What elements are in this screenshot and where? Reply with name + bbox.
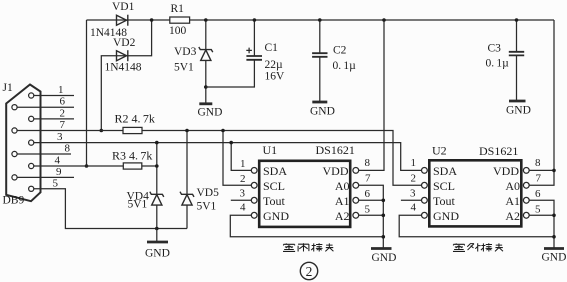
svg-text:0. 1µ: 0. 1µ xyxy=(333,60,357,72)
node: VD2 anode joins pin7 row xyxy=(100,129,104,133)
J1 pin 9 xyxy=(12,175,17,180)
svg-text:A0: A0 xyxy=(505,179,520,193)
svg-text:SDA: SDA xyxy=(263,164,287,178)
capacitor C3 xyxy=(516,20,518,101)
svg-text:GND: GND xyxy=(263,209,289,223)
svg-text:5: 5 xyxy=(365,204,371,216)
J1 pin 7 xyxy=(12,128,17,133)
U1 pin 6 A1 xyxy=(353,197,359,203)
capacitor C2 xyxy=(319,20,321,102)
diode VD1 xyxy=(117,15,127,25)
svg-text:VD1: VD1 xyxy=(112,1,135,13)
svg-text:4: 4 xyxy=(55,155,61,167)
svg-text:4: 4 xyxy=(411,202,417,214)
svg-text:SCL: SCL xyxy=(433,179,455,193)
label: outdoor probe 室外探头 xyxy=(453,243,503,251)
svg-text:C3: C3 xyxy=(488,43,502,55)
J1 pin 2 xyxy=(29,116,34,121)
wire: U1 VDD riser to rail xyxy=(359,20,384,170)
svg-text:GND: GND xyxy=(506,105,531,117)
svg-text:5: 5 xyxy=(535,204,541,216)
U2 pin 5 A2 xyxy=(523,212,529,218)
U2 pin 6 A1 xyxy=(523,197,529,203)
U1 pin 8 VDD xyxy=(353,168,359,174)
U1 pin 1 SDA xyxy=(251,168,257,174)
wire: bus B from J1 pin3 to U2 SDA xyxy=(34,143,422,171)
wire: U1 GND pin route xyxy=(230,215,383,237)
svg-text:7: 7 xyxy=(536,173,542,185)
svg-text:C2: C2 xyxy=(333,45,347,57)
ground under U1 xyxy=(371,247,392,250)
svg-text:GND: GND xyxy=(433,209,459,223)
svg-text:16V: 16V xyxy=(265,71,286,83)
wire: U2 A1/A2 ground tie xyxy=(529,200,554,248)
svg-text:A1: A1 xyxy=(505,194,520,208)
svg-text:GND: GND xyxy=(145,248,170,260)
U1 pin 4 GND xyxy=(251,212,257,218)
wire: VD2 branch (anode riser from pin7 row, diode row, cathode riser to rail) xyxy=(101,20,151,131)
zener VD4 xyxy=(150,192,164,197)
J1 pin 8 xyxy=(12,151,17,156)
node: U1 GND route joins ground tie xyxy=(382,235,386,239)
svg-text:6: 6 xyxy=(60,96,66,108)
svg-text:5V1: 5V1 xyxy=(174,62,194,74)
wire: U2 VDD/A0 tie to rail (right edge drop) xyxy=(529,20,554,185)
svg-text:DB9: DB9 xyxy=(3,195,25,207)
wire: VD4 riser from bus B through R3 node xyxy=(156,143,158,229)
J1 pin 5 xyxy=(29,186,34,191)
svg-text:A1: A1 xyxy=(335,194,350,208)
svg-text:3: 3 xyxy=(240,188,246,200)
svg-text:22µ: 22µ xyxy=(265,59,284,71)
wire: U1 Tout stub xyxy=(231,199,252,201)
svg-text:DS1621: DS1621 xyxy=(479,144,518,158)
U2 pin 8 VDD xyxy=(523,168,529,174)
resistor R1 xyxy=(170,17,190,23)
svg-text:0. 1µ: 0. 1µ xyxy=(486,58,510,70)
svg-text:1: 1 xyxy=(411,157,417,169)
svg-text:8: 8 xyxy=(365,157,371,169)
svg-text:R3 4. 7k: R3 4. 7k xyxy=(112,149,152,163)
U2 pin 2 SCL xyxy=(422,182,428,188)
svg-text:VDD: VDD xyxy=(323,164,349,178)
op-amp U2 DS1621 box xyxy=(429,160,521,226)
svg-text:5: 5 xyxy=(53,177,59,189)
svg-text:DS1621: DS1621 xyxy=(316,143,355,157)
J1 pin 1 xyxy=(29,93,34,98)
svg-text:2: 2 xyxy=(60,107,66,119)
wire: ground bus from J1 pin5 xyxy=(34,189,187,229)
svg-text:6: 6 xyxy=(365,188,371,200)
wire: top +5V rail xyxy=(87,19,555,21)
svg-text:1: 1 xyxy=(240,158,246,170)
figure number circled 2 xyxy=(300,262,317,279)
svg-text:R1: R1 xyxy=(171,3,185,15)
wire: U1 SDA riser from bus B xyxy=(231,143,251,171)
node: VD4 ground junction xyxy=(155,227,159,231)
zener VD3 xyxy=(205,20,207,103)
node: U2 GND route joins ground tie xyxy=(552,235,556,239)
svg-text:C1: C1 xyxy=(265,42,279,54)
zener VD5 xyxy=(180,192,194,197)
svg-text:SDA: SDA xyxy=(433,164,457,178)
U2 pin 1 SDA xyxy=(422,168,428,174)
svg-text:U2: U2 xyxy=(432,144,447,158)
svg-text:8: 8 xyxy=(65,143,71,155)
svg-text:Tout: Tout xyxy=(433,194,455,208)
svg-text:5V1: 5V1 xyxy=(197,201,217,213)
svg-text:A0: A0 xyxy=(335,179,350,193)
svg-text:GND: GND xyxy=(542,252,567,264)
label: indoor probe 室内探头 xyxy=(283,243,333,251)
op-amp U1 DS1621 box xyxy=(259,161,350,227)
svg-text:8: 8 xyxy=(535,157,541,169)
svg-text:J1: J1 xyxy=(3,82,13,94)
svg-text:A2: A2 xyxy=(335,209,350,223)
svg-text:1: 1 xyxy=(58,84,64,96)
U1 pin 2 SCL xyxy=(251,182,257,188)
node: VD2 cathode joins rail xyxy=(150,18,154,22)
U2 pin 3 Tout xyxy=(422,197,428,203)
U1 pin 5 A2 xyxy=(353,212,359,218)
svg-text:VD2: VD2 xyxy=(113,37,136,49)
svg-text:9: 9 xyxy=(56,166,62,178)
svg-text:2: 2 xyxy=(240,173,246,185)
svg-text:5V1: 5V1 xyxy=(128,199,148,211)
svg-text:3: 3 xyxy=(410,188,416,200)
J1 pin 6 xyxy=(12,105,17,110)
svg-text:R2 4. 7k: R2 4. 7k xyxy=(115,112,155,126)
wire: R3 row from J1 pin4 xyxy=(34,165,157,167)
node: VD1 riser joins R3/pin4 row xyxy=(85,164,89,168)
resistor R2 xyxy=(123,127,142,133)
svg-text:GND: GND xyxy=(198,107,223,119)
wire: U2 GND pin route xyxy=(399,215,554,237)
svg-text:6: 6 xyxy=(535,188,541,200)
ground under U2 xyxy=(544,247,564,250)
node: VD3/C1 ground junction xyxy=(204,85,208,89)
U1 pin 7 A0 xyxy=(353,182,359,188)
svg-text:VD5: VD5 xyxy=(197,187,220,199)
ground under VD4 xyxy=(156,229,158,242)
svg-text:VD3: VD3 xyxy=(174,46,197,58)
svg-text:GND: GND xyxy=(372,252,397,264)
svg-text:A2: A2 xyxy=(505,209,520,223)
svg-text:VDD: VDD xyxy=(493,164,519,178)
ground under VD3 xyxy=(199,102,212,105)
wire: U2 Tout stub xyxy=(401,199,423,201)
svg-text:Tout: Tout xyxy=(263,194,285,208)
svg-text:U1: U1 xyxy=(263,143,278,157)
U2 pin 4 GND xyxy=(422,212,428,218)
svg-text:4: 4 xyxy=(240,202,246,214)
wire: U1 SCL riser from bus A xyxy=(223,131,251,186)
ground under C3 xyxy=(509,100,526,103)
wire: U1 A0/A1/A2 ground tie xyxy=(359,185,384,248)
U1 pin 3 Tout xyxy=(251,197,257,203)
wire: VD5 riser from bus A xyxy=(186,131,188,229)
wire: bus A from J1 pin7 through R2 to U2 SCL xyxy=(17,131,421,186)
svg-text:2: 2 xyxy=(306,264,313,279)
J1 pin 4 xyxy=(29,163,34,168)
svg-text:1N4148: 1N4148 xyxy=(105,62,142,74)
U2 pin 7 A0 xyxy=(523,182,529,188)
diode VD2 xyxy=(117,51,127,61)
capacitor C1 xyxy=(206,20,255,87)
wire: VD1 anode riser (rail left end down to DTR row) xyxy=(86,20,88,166)
connector J1 DB9 outline xyxy=(6,85,40,202)
svg-text:7: 7 xyxy=(60,119,66,131)
svg-text:GND: GND xyxy=(310,106,335,118)
svg-text:100: 100 xyxy=(169,25,187,37)
svg-text:SCL: SCL xyxy=(263,179,285,193)
svg-text:7: 7 xyxy=(365,173,371,185)
svg-text:2: 2 xyxy=(411,173,417,185)
svg-text:3: 3 xyxy=(57,131,63,143)
J1 pin 3 xyxy=(29,140,34,145)
ground under C2 xyxy=(312,101,327,104)
resistor R3 xyxy=(123,163,142,169)
